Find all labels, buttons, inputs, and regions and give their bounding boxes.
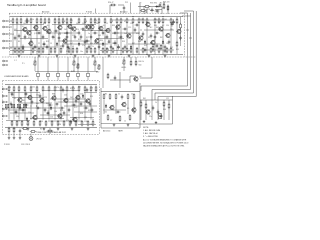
svg-text:6k8: 6k8 [36, 103, 39, 105]
svg-text:R1: R1 [105, 94, 107, 96]
svg-text:R21: R21 [66, 51, 69, 53]
connector J6 [3, 60, 8, 62]
svg-text:2W: 2W [170, 29, 173, 31]
wire signal [78, 124, 96, 126]
wire [184, 10, 194, 12]
wire lower-middle border bottom [101, 127, 140, 129]
resistor R26 [138, 18, 140, 24]
resistor R122 [22, 128, 28, 130]
capacitor C21 [117, 44, 120, 49]
svg-text:4k7: 4k7 [14, 29, 17, 31]
wire [34, 57, 36, 60]
transistor Q34 [63, 98, 68, 104]
wire bus bend 3 [155, 92, 194, 94]
svg-text:1k: 1k [18, 121, 20, 123]
svg-text:C5: C5 [50, 43, 52, 45]
wire signal [62, 43, 108, 45]
potentiometer RV1 [72, 60, 75, 66]
resistor R85 [95, 86, 97, 92]
wire [130, 57, 132, 60]
resistor R17 [90, 18, 92, 24]
resistor R77 [48, 86, 50, 92]
svg-text:33k: 33k [16, 116, 19, 118]
wire vertical [104, 24, 106, 54]
resistor R112 [163, 101, 165, 107]
wire vertical [133, 100, 135, 114]
ground [43, 128, 46, 131]
wire signal [84, 92, 97, 94]
switch S4 [23, 104, 26, 107]
connector J1 [3, 20, 8, 22]
node junction [133, 16, 134, 17]
wire signal [30, 118, 64, 120]
wire [135, 57, 137, 60]
wire signal [10, 112, 34, 114]
svg-text:P 5: P 5 [22, 63, 25, 65]
capacitor C46 [68, 108, 71, 113]
diode D4 [130, 45, 132, 49]
svg-text:R27: R27 [86, 37, 89, 39]
capacitor C13 [52, 35, 55, 40]
capacitor C71 [24, 35, 27, 40]
resistor R71 [144, 6, 150, 8]
svg-text:R12: R12 [43, 23, 46, 25]
wire [123, 57, 125, 59]
transistor Q23 [176, 29, 181, 35]
capacitor C56 [157, 110, 160, 115]
svg-text:R31: R31 [112, 25, 115, 27]
capacitor C7 [113, 32, 118, 35]
wire vertical [70, 24, 72, 54]
svg-text:15n: 15n [90, 124, 93, 126]
capacitor C65 [39, 94, 42, 99]
wire [8, 33, 12, 35]
transistor Q20 [28, 41, 33, 47]
transistor Q42 [121, 102, 126, 108]
connector J11 [2, 108, 7, 110]
resistor R100 [103, 93, 105, 99]
capacitor C17 [124, 45, 127, 50]
resistor R2 [16, 18, 18, 24]
svg-text:6.2: 6.2 [162, 25, 164, 27]
capacitor C64 [89, 102, 92, 107]
capacitor C45 [56, 102, 59, 107]
wire trimmer drop 3 [123, 65, 125, 71]
ground [92, 55, 95, 58]
resistor R78 [54, 86, 56, 92]
svg-text:R40: R40 [138, 41, 141, 43]
svg-text:C2: C2 [12, 34, 14, 36]
capacitor C1 [25, 20, 30, 23]
connector P3 [57, 57, 60, 80]
svg-text:C12: C12 [140, 19, 143, 21]
wire signal [14, 30, 40, 32]
wire bus line 3 [193, 11, 195, 93]
svg-text:R6 1k: R6 1k [40, 129, 45, 131]
wire [118, 4, 124, 6]
wire bus tick 2 [189, 37, 192, 39]
transistor Q32 [39, 98, 44, 104]
capacitor C32 [48, 104, 53, 107]
wire [8, 40, 12, 42]
svg-text:C16: C16 [50, 117, 53, 119]
resistor R75 [36, 86, 38, 92]
node junction [99, 54, 100, 55]
transistor Q13 [115, 24, 120, 30]
svg-text:3. * = SELECTED: 3. * = SELECTED [143, 136, 159, 138]
resistor R78 [163, 3, 165, 9]
capacitor C25 [172, 19, 175, 24]
resistor R24 [126, 18, 128, 24]
svg-text:(4.4): (4.4) [98, 27, 102, 29]
svg-text:C6a: C6a [82, 23, 85, 25]
wire [49, 128, 51, 134]
svg-text:0.47: 0.47 [144, 45, 147, 47]
capacitor C42 [155, 10, 160, 13]
wire top stub [130, 3, 132, 14]
node junction [60, 33, 61, 34]
wire signal [144, 29, 174, 31]
svg-text:0.1: 0.1 [28, 37, 30, 39]
resistor R103 [87, 120, 89, 126]
wire [180, 12, 188, 14]
transistor Q21 [62, 38, 67, 44]
resistor R113 [168, 103, 170, 109]
svg-text:P12: P12 [125, 2, 128, 4]
wire bus drop 4 [157, 97, 159, 101]
wire interconnect2 [140, 77, 152, 79]
wire bottom tail3 [19, 133, 21, 136]
ground [13, 128, 16, 131]
transistor Q43 [131, 107, 136, 113]
resistor R12 [62, 18, 64, 24]
transistor Q17 [150, 40, 155, 46]
transistor Q5 [46, 29, 51, 35]
capacitor C31 [36, 107, 41, 110]
svg-text:R18: R18 [62, 21, 65, 23]
svg-text:LOWER AMPLIFIER BOARD: LOWER AMPLIFIER BOARD [4, 75, 29, 78]
diode D22 [70, 120, 72, 124]
svg-text:R19: R19 [58, 34, 61, 36]
svg-text:2k: 2k [118, 94, 120, 96]
resistor R72 [18, 86, 20, 92]
svg-text:3k3: 3k3 [98, 35, 101, 37]
wire vertical [84, 24, 86, 54]
wire vertical [30, 92, 32, 119]
resistor R123 [30, 131, 36, 133]
wire [150, 10, 154, 12]
svg-text:6.2: 6.2 [62, 24, 64, 26]
connector J5 [3, 47, 8, 49]
resistor R102 [81, 120, 83, 126]
ground [27, 128, 30, 131]
diode D3 [102, 42, 104, 46]
svg-text:P 2031: P 2031 [4, 144, 10, 146]
capacitor C81 [106, 35, 109, 40]
wire ext top rail [140, 99, 173, 101]
capacitor C47 [80, 102, 83, 107]
svg-text:R23: R23 [78, 39, 81, 41]
diode D6 [162, 40, 164, 44]
wire [119, 72, 121, 88]
resistor R66 [170, 47, 172, 53]
node junction [147, 54, 148, 55]
connector P4 [67, 57, 70, 80]
wire signal [20, 102, 52, 104]
svg-text:1k: 1k [32, 19, 34, 21]
svg-text:R61: R61 [143, 98, 146, 100]
wire interconnect [151, 57, 153, 78]
transistor Q16 [145, 22, 150, 28]
resistor R14 [70, 18, 72, 24]
svg-text:R52: R52 [170, 47, 173, 49]
capacitor C43 [123, 6, 126, 11]
resistor R124 [47, 130, 53, 132]
svg-text:10k: 10k [54, 111, 57, 113]
wire vertical [151, 100, 153, 120]
resistor R90 [11, 120, 13, 126]
wire signal [20, 38, 48, 40]
transistor Q44 [145, 109, 150, 115]
switch S1 [5, 104, 8, 107]
capacitor C19 [150, 34, 153, 39]
svg-text:R95 220: R95 220 [163, 2, 169, 4]
wire vertical [30, 24, 32, 54]
capacitor C20 [164, 45, 167, 50]
resistor R13 [66, 18, 68, 24]
svg-text:R8: R8 [30, 40, 32, 42]
svg-text:6.2: 6.2 [146, 21, 148, 23]
resistor R6 [36, 18, 38, 24]
capacitor C78 [62, 44, 65, 49]
transistor Q36 [85, 98, 90, 104]
node junction [118, 33, 119, 34]
transistor Q39 [72, 117, 77, 123]
svg-text:R6: R6 [24, 23, 26, 25]
connector J8 [2, 88, 7, 90]
capacitor C60 [19, 106, 22, 111]
wire signal [10, 46, 58, 48]
transistor Q9 [85, 24, 90, 30]
svg-text:47k: 47k [124, 21, 127, 23]
resistor R28 [146, 18, 148, 24]
transistor Q4 [42, 26, 47, 32]
resistor R49 [68, 47, 70, 53]
svg-text:10k: 10k [52, 37, 55, 39]
wire bus line 4 [195, 11, 197, 97]
switch S2 [11, 104, 14, 107]
capacitor C68 [19, 129, 22, 134]
svg-text:R20: R20 [60, 46, 63, 48]
wire [73, 57, 75, 60]
svg-text:R91 R92: R91 R92 [150, 2, 157, 4]
capacitor C4 [65, 32, 70, 35]
capacitor C35 [84, 107, 89, 110]
wire bus line 1 [187, 13, 189, 86]
resistor R60 [130, 60, 132, 66]
capacitor C30 [24, 104, 29, 107]
resistor R74 [30, 86, 32, 92]
node junction [41, 16, 42, 17]
svg-text:47k: 47k [56, 87, 59, 89]
wire vertical [78, 92, 80, 119]
capacitor C9 [135, 24, 140, 27]
wire signal [48, 120, 82, 122]
svg-text:C30: C30 [166, 25, 169, 27]
transistor Q2 [26, 30, 31, 36]
svg-text:560: 560 [139, 65, 142, 67]
capacitor C74 [74, 35, 77, 40]
svg-text:R93: R93 [147, 9, 150, 11]
wire signal [8, 92, 40, 94]
resistor R105 [107, 114, 109, 120]
svg-text:68k: 68k [90, 43, 93, 45]
svg-text:VALUES IN BRACKETS AT FULL OUT: VALUES IN BRACKETS AT FULL OUTPUT 8 OHM. [143, 145, 185, 148]
svg-text:0.1: 0.1 [14, 98, 16, 100]
svg-text:R29: R29 [106, 49, 109, 51]
svg-text:AB 1514: AB 1514 [103, 129, 110, 132]
connector P10 [159, 114, 162, 119]
svg-text:AB 1504: AB 1504 [42, 10, 49, 13]
svg-text:NOTE:: NOTE: [143, 127, 149, 129]
node junction [111, 16, 112, 17]
wire vertical [145, 100, 147, 120]
wire signal [40, 114, 70, 116]
resistor R75 [176, 18, 178, 24]
resistor R94 [33, 120, 35, 126]
transistor Q40 [133, 76, 138, 82]
svg-text:C4: C4 [54, 19, 56, 21]
diode D20 [26, 117, 28, 121]
resistor R23 [120, 18, 122, 24]
capacitor C83 [142, 32, 145, 37]
capacitor C49b [86, 88, 89, 93]
svg-text:4k7: 4k7 [24, 94, 27, 96]
wire vertical [58, 24, 60, 54]
wire vertical [54, 92, 56, 119]
wire vertical [20, 24, 22, 54]
potentiometer RV5 [122, 59, 125, 65]
svg-text:TAPE: TAPE [118, 129, 124, 132]
ground [71, 128, 74, 131]
wire signal [12, 97, 44, 99]
svg-text:15k: 15k [130, 23, 133, 25]
connector P6 [87, 57, 90, 80]
capacitor C77 [46, 45, 49, 50]
wire vertical [163, 100, 165, 120]
capacitor C16 [108, 40, 111, 45]
wire bus bend 4 [158, 96, 196, 98]
transistor Q41 [109, 105, 114, 111]
wire signal [128, 43, 160, 45]
transistor Q33 [51, 95, 56, 101]
ground [56, 55, 59, 58]
wire [145, 9, 147, 13]
resistor R130 [152, 45, 154, 51]
capacitor C93 [144, 48, 147, 53]
transistor Q12 [105, 28, 110, 34]
resistor R96 [45, 120, 47, 126]
wire signal [58, 101, 90, 103]
svg-text:R60 1k: R60 1k [139, 61, 145, 63]
resistor R120 [8, 127, 10, 133]
wire vertical [90, 24, 92, 47]
wire [94, 57, 96, 60]
capacitor C44 [44, 108, 47, 113]
resistor R84 [90, 86, 92, 92]
resistor R80 [66, 86, 68, 92]
wire vertical [18, 92, 20, 119]
wire signal [58, 40, 90, 42]
svg-text:Q8: Q8 [139, 76, 141, 78]
ground [164, 55, 167, 58]
capacitor C90 [110, 45, 113, 50]
svg-text:R47: R47 [160, 37, 163, 39]
resistor R47 [54, 47, 56, 53]
wire vertical right2 [180, 17, 182, 46]
ground [8, 137, 11, 140]
resistor R29 [154, 18, 156, 24]
potentiometer RV3 [93, 60, 96, 66]
wire vertical [48, 24, 50, 54]
connector J3 [3, 33, 8, 35]
resistor R95 [39, 120, 41, 126]
resistor R31 [162, 18, 164, 24]
svg-text:0.5: 0.5 [162, 43, 164, 45]
capacitor C79 [84, 40, 87, 45]
svg-text:R88: R88 [52, 94, 55, 96]
resistor R43 [32, 47, 34, 53]
resistor R104 [133, 93, 135, 99]
connector J9 [2, 95, 7, 97]
svg-text:LP1 6V: LP1 6V [36, 139, 42, 141]
resistor R51 [76, 47, 78, 53]
svg-text:8.4: 8.4 [66, 23, 68, 25]
svg-text:R77: R77 [78, 87, 81, 89]
transistor Q7 [67, 24, 72, 30]
potentiometer RV2 [76, 63, 79, 69]
transistor Q30 [17, 97, 22, 103]
wire vertical [60, 92, 62, 119]
resistor R3 [20, 18, 22, 24]
svg-text:R55: R55 [176, 49, 179, 51]
ground [57, 128, 60, 131]
svg-text:AB 1510: AB 1510 [120, 10, 127, 13]
wire vertical [98, 24, 100, 54]
wire signal [10, 24, 44, 26]
wire vertical [13, 92, 15, 119]
capacitor C63 [75, 99, 78, 104]
wire signal [140, 49, 174, 51]
wire [161, 7, 163, 15]
resistor R63 [150, 47, 152, 53]
svg-text:2. ALL CAP IN uF: 2. ALL CAP IN uF [143, 132, 159, 135]
capacitor C75 [90, 35, 93, 40]
svg-text:R24: R24 [84, 21, 87, 23]
svg-text:0.22: 0.22 [74, 107, 77, 109]
svg-text:470: 470 [66, 120, 69, 122]
node junction [92, 30, 93, 31]
upper board dashed border left [9, 13, 11, 57]
wire signal [70, 117, 94, 119]
svg-text:2k2: 2k2 [70, 97, 73, 99]
svg-text:R9: R9 [127, 108, 129, 110]
diode D21 [50, 106, 52, 110]
capacitor C76 [22, 45, 25, 50]
svg-text:22: 22 [38, 43, 40, 45]
svg-text:C3: C3 [36, 51, 38, 53]
capacitor C5 [81, 28, 86, 31]
